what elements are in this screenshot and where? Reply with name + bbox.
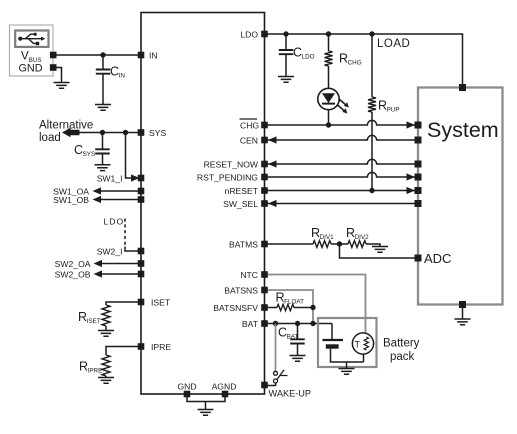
- wire SW1_OA: [99, 190, 141, 192]
- svg-text:BAT: BAT: [242, 319, 259, 329]
- capacitor CLDO plates: [279, 50, 294, 54]
- pin SW1_OA: [138, 188, 145, 195]
- capacitor CLDO stem bottom: [285, 54, 287, 76]
- node LED/CHG junction: [326, 122, 331, 127]
- pin RESET_NOW: [261, 161, 268, 168]
- capacitor CSYS stem top: [102, 133, 104, 150]
- wire nRESET: [265, 190, 419, 192]
- arrow RST_PENDING to System: [407, 173, 416, 180]
- wire RCHG top: [328, 34, 330, 51]
- svg-text:SW2_OA: SW2_OA: [55, 259, 91, 269]
- pin SW2_OB: [138, 271, 145, 278]
- pin System top: [459, 84, 466, 91]
- wire CHG: [265, 120, 419, 125]
- svg-text:BATSNSFV: BATSNSFV: [213, 303, 258, 313]
- node BAT/BATSNS junction: [310, 321, 315, 326]
- wire SW2_OA: [100, 263, 141, 265]
- wire SW_SEL: [265, 203, 419, 205]
- svg-text:IPRE: IPRE: [151, 342, 171, 352]
- resistor RPUP: [368, 97, 376, 112]
- svg-text:IN: IN: [119, 73, 126, 80]
- svg-text:LDO: LDO: [302, 54, 315, 61]
- wire BATSNSFV: [265, 307, 278, 309]
- pin System nRESET: [415, 187, 422, 194]
- resistor RISET: [102, 305, 110, 326]
- ground (System): [455, 319, 471, 325]
- wire NTC: [265, 275, 366, 335]
- svg-text:CHG: CHG: [240, 121, 259, 131]
- wire LED to CHG line: [328, 110, 330, 125]
- svg-text:SW2_I: SW2_I: [97, 247, 123, 257]
- svg-text:GND: GND: [19, 63, 43, 75]
- USB icon frame: [15, 31, 48, 47]
- svg-text:System: System: [427, 118, 499, 142]
- USB trident icon: [18, 33, 45, 46]
- battery cell BT1: [323, 339, 344, 341]
- wire SYS: [80, 132, 142, 134]
- node SYS/SW1I junction: [123, 130, 128, 135]
- pin System SW_SEL: [415, 200, 422, 207]
- USB connector J1 outer box: [10, 25, 54, 76]
- pin AGND: [222, 391, 229, 398]
- capacitor CBAT stem bottom: [297, 344, 299, 356]
- node BAT/CBAT junction: [295, 321, 300, 326]
- wire SW1_OB: [99, 199, 141, 201]
- arrow SW2_OB: [94, 270, 103, 277]
- wire CEN: [265, 135, 419, 140]
- pin CEN: [261, 137, 268, 144]
- arrow SW1_OB: [93, 196, 102, 203]
- svg-text:BATMS: BATMS: [229, 240, 258, 250]
- svg-text:T: T: [355, 340, 361, 350]
- wire RESET_NOW: [265, 159, 419, 164]
- wire battery minus: [331, 349, 364, 362]
- capacitor CLDO stem top: [285, 34, 287, 50]
- svg-text:SW1_OB: SW1_OB: [53, 195, 89, 205]
- arrow into SW_SEL: [268, 200, 277, 207]
- pin IPRE: [138, 343, 145, 350]
- svg-text:WAKE-UP: WAKE-UP: [269, 389, 312, 399]
- svg-text:SW1_I: SW1_I: [97, 174, 123, 184]
- pin GND (USB): [50, 64, 57, 71]
- pin GND: [184, 391, 191, 398]
- wire ground stem: [205, 402, 207, 410]
- pin BATMS: [261, 241, 268, 248]
- dashed LDO link: [124, 219, 126, 247]
- wire SW1_I: [126, 133, 138, 179]
- capacitor CIN plates: [96, 70, 111, 74]
- pin BATSNSFV: [261, 304, 268, 311]
- wire RDIV1 to RDIV2: [331, 243, 348, 245]
- svg-text:BATSNS: BATSNS: [224, 286, 258, 296]
- capacitor CIN stem top: [102, 55, 104, 70]
- Battery pack box: [318, 318, 377, 367]
- svg-text:RESET_NOW: RESET_NOW: [204, 160, 259, 170]
- resistor RFLOAT: [277, 304, 294, 310]
- svg-text:ISET: ISET: [87, 318, 101, 325]
- svg-text:IN: IN: [149, 51, 158, 61]
- pin CHG: [261, 122, 268, 129]
- pin VBUS: [50, 52, 57, 59]
- ground (CSYS): [95, 165, 111, 171]
- node BAT/wake junction: [273, 321, 278, 326]
- node RPUP/nRESET junction: [369, 188, 374, 193]
- pin BATSNS: [261, 287, 268, 294]
- pin IN: [138, 52, 145, 59]
- svg-text:SW2_OB: SW2_OB: [55, 270, 91, 280]
- svg-text:Battery: Battery: [383, 338, 420, 350]
- svg-text:PUP: PUP: [387, 107, 400, 114]
- wire ISET: [106, 302, 141, 305]
- pin RST_PENDING: [261, 174, 268, 181]
- wire IPRE: [106, 347, 141, 356]
- resistor RCHG: [325, 51, 333, 66]
- pin System CHG: [415, 122, 422, 129]
- ground (RISET): [98, 331, 114, 337]
- alternative load arrow: [62, 128, 80, 138]
- node RPUP junction: [369, 31, 374, 36]
- svg-text:CHG: CHG: [348, 60, 362, 67]
- pin System RST_PENDING: [415, 174, 422, 181]
- wire battery ground stem: [346, 362, 348, 369]
- capacitor CBAT stem top: [297, 324, 299, 340]
- arrow into CEN: [268, 136, 277, 143]
- switch SW wake-up: [274, 371, 278, 375]
- node CLDO junction: [283, 31, 288, 36]
- svg-text:pack: pack: [390, 351, 415, 363]
- ground (CBAT): [290, 356, 306, 362]
- node SYS/CSYS junction: [100, 130, 105, 135]
- wire divider to ADC: [340, 244, 419, 258]
- svg-text:FLOAT: FLOAT: [284, 299, 304, 306]
- wire BATMS: [265, 243, 314, 245]
- pin BAT: [261, 320, 268, 327]
- pin ADC: [415, 255, 422, 262]
- node VBUS/CIN junction: [100, 52, 105, 57]
- svg-text:SYS: SYS: [83, 151, 96, 158]
- wire GND/AGND join: [187, 396, 225, 402]
- svg-text:IPRE: IPRE: [88, 368, 103, 375]
- wire LDO rail: [265, 34, 463, 88]
- capacitor CSYS stem bottom: [102, 154, 104, 165]
- svg-text:DIV2: DIV2: [355, 234, 369, 241]
- svg-text:ADC: ADC: [424, 251, 451, 266]
- svg-text:CEN: CEN: [240, 136, 258, 146]
- pin SW1_I: [138, 175, 145, 182]
- svg-text:DIV1: DIV1: [320, 234, 334, 241]
- arrow SW1_OA: [93, 187, 102, 194]
- pin System RESET_NOW: [415, 161, 422, 168]
- wire wake-up upper: [275, 324, 277, 372]
- capacitor CSYS plates: [95, 149, 110, 153]
- node RCHG junction: [326, 31, 331, 36]
- svg-text:nRESET: nRESET: [225, 186, 259, 196]
- capacitor CIN stem bottom: [102, 74, 104, 105]
- wire RDIV2 to ground: [366, 244, 380, 247]
- wire SW2_I: [125, 247, 141, 252]
- svg-text:LDO: LDO: [240, 30, 258, 40]
- svg-text:load: load: [39, 132, 61, 144]
- svg-text:BAT: BAT: [287, 334, 299, 341]
- ground (battery): [339, 369, 355, 375]
- pin SYS: [138, 129, 145, 136]
- System block: [418, 88, 503, 305]
- pin SW_SEL: [261, 200, 268, 207]
- arrow into RESET_NOW: [268, 160, 277, 167]
- pin System CEN: [415, 137, 422, 144]
- LED D1: [318, 88, 349, 113]
- wire USB ground: [53, 68, 61, 83]
- arrow CHG to System: [407, 121, 416, 128]
- wire RFLOAT to junction: [294, 307, 313, 309]
- pin nRESET: [261, 187, 268, 194]
- wire RISET to ground: [105, 326, 107, 331]
- svg-text:LOAD: LOAD: [377, 38, 410, 50]
- wire System ground stem: [462, 308, 464, 319]
- arrow nRESET to System: [407, 187, 416, 194]
- pin SW2_I: [138, 248, 145, 255]
- wire thermistor to ground: [363, 354, 365, 362]
- IC U1 charger block outline: [141, 13, 265, 395]
- wire RPUP top: [371, 34, 373, 97]
- svg-text:ISET: ISET: [151, 298, 171, 308]
- wire VBUS to IN: [53, 54, 141, 56]
- wire BATSNS: [265, 290, 314, 324]
- node RFLOAT/BATSNS junction: [310, 305, 315, 310]
- wire BAT into battery: [331, 324, 333, 341]
- resistor RDIV2: [348, 241, 366, 248]
- wire BAT: [265, 323, 333, 325]
- pin SW2_OA: [138, 260, 145, 267]
- pin ISET: [138, 299, 145, 306]
- pin NTC: [261, 271, 268, 278]
- ground (RDIV2): [372, 247, 388, 253]
- node divider junction: [337, 241, 342, 246]
- ground (RIPRE): [98, 378, 114, 384]
- wire RCHG to LED: [328, 66, 330, 89]
- svg-text:GND: GND: [177, 382, 196, 392]
- ground (CLDO): [278, 77, 294, 83]
- svg-text:NTC: NTC: [240, 270, 258, 280]
- wire RST_PENDING: [265, 172, 419, 177]
- svg-text:Alternative: Alternative: [39, 120, 93, 132]
- ground (USB): [54, 83, 70, 89]
- pin SW1_OB: [138, 196, 145, 203]
- pin LDO: [261, 31, 268, 38]
- svg-text:RST_PENDING: RST_PENDING: [197, 173, 258, 183]
- pin System bottom: [459, 301, 466, 308]
- wire wake-up lower: [266, 383, 276, 386]
- ground (chip): [198, 410, 214, 416]
- arrow into SW1_I: [131, 174, 140, 181]
- svg-text:LDO: LDO: [104, 217, 125, 227]
- svg-text:SW_SEL: SW_SEL: [223, 199, 258, 209]
- thermistor RT1: [352, 333, 373, 354]
- ground (CIN): [95, 105, 111, 111]
- wire SW2_OB: [100, 273, 141, 275]
- svg-text:SYS: SYS: [149, 128, 166, 138]
- arrow SW2_OA: [94, 260, 103, 267]
- resistor RDIV1: [313, 241, 331, 248]
- resistor RIPRE: [102, 355, 110, 376]
- pin WAKE-UP: [261, 382, 268, 389]
- svg-text:AGND: AGND: [212, 382, 237, 392]
- wire RPUP bottom: [371, 112, 373, 191]
- capacitor CBAT plates: [290, 339, 305, 343]
- wire RIPRE to ground: [105, 376, 107, 378]
